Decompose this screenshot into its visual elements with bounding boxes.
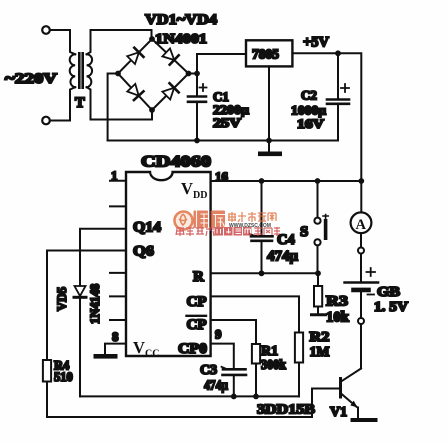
wire bottom rail2 to V1 base <box>47 389 340 418</box>
transistor V1 <box>339 369 361 419</box>
ground V1 emitter <box>351 418 378 422</box>
svg-text:V: V <box>181 179 193 198</box>
wire ground rail <box>108 140 338 142</box>
resistor R4 <box>43 360 51 417</box>
label VCC <box>133 338 159 360</box>
svg-text:474μ: 474μ <box>267 249 298 265</box>
capacitor C4 <box>250 181 273 273</box>
pin 5 stub <box>110 272 126 274</box>
diode VD1 top-left <box>127 48 143 64</box>
switch S <box>314 181 328 273</box>
ammeter A <box>351 212 372 233</box>
wire bridge right node to C1 tap up to 7805 <box>189 54 247 74</box>
svg-text:1N4148: 1N4148 <box>88 284 102 324</box>
node bridge left <box>115 71 121 77</box>
wire bottom rail1 <box>80 395 299 397</box>
wire terminal to battery <box>360 254 362 282</box>
node bridge right <box>186 71 192 77</box>
svg-text:C1: C1 <box>213 89 229 104</box>
svg-text:25V: 25V <box>213 116 241 130</box>
node C1 tap <box>194 71 200 77</box>
wire CP0 to C3 <box>211 344 234 369</box>
svg-text:1N4001: 1N4001 <box>155 31 207 46</box>
svg-text:1M: 1M <box>310 345 330 360</box>
ground pin8 <box>94 354 118 359</box>
svg-text:C3: C3 <box>200 363 217 378</box>
node C4 top <box>259 178 265 184</box>
transformer T core <box>78 52 84 89</box>
svg-text:9: 9 <box>215 327 222 342</box>
svg-text:R2: R2 <box>310 330 330 345</box>
transformer T secondary winding <box>87 54 93 87</box>
svg-text:V1: V1 <box>330 405 347 420</box>
svg-text:510: 510 <box>54 370 73 384</box>
diode VD3 bottom-left <box>127 84 143 100</box>
svg-text:A: A <box>356 217 367 233</box>
wire Q6 to R4 <box>47 251 126 361</box>
svg-text:T: T <box>75 95 85 111</box>
svg-text:VD1~VD4: VD1~VD4 <box>145 12 217 28</box>
wire 7805 out to +5V <box>292 53 361 181</box>
node R3 top <box>315 270 321 276</box>
ground R3 <box>312 313 326 316</box>
regulator U 7805 box <box>246 40 292 66</box>
svg-text:10k: 10k <box>326 310 350 326</box>
wire 7805 gnd pin <box>268 66 270 140</box>
wire <box>50 30 75 54</box>
svg-text:VD5: VD5 <box>55 287 69 311</box>
resistor R1 <box>252 344 260 396</box>
watermark weiku logo <box>175 211 281 237</box>
label C2 plus <box>341 84 349 92</box>
svg-text:1. 5V: 1. 5V <box>374 299 408 314</box>
svg-text:1000μ: 1000μ <box>291 104 326 118</box>
terminal meter bottom <box>358 248 364 254</box>
svg-text:C2: C2 <box>301 88 317 103</box>
capacitor C2 <box>327 53 349 140</box>
node bridge top <box>149 36 155 42</box>
svg-text:16V: 16V <box>297 117 324 131</box>
wire Q14 to VD5 <box>80 229 126 286</box>
node C1 ground <box>194 138 200 144</box>
wire battery to V1 collector <box>360 324 362 369</box>
resistor R2 <box>295 333 303 397</box>
svg-text:Q6: Q6 <box>133 244 154 260</box>
wire reset rail <box>211 272 318 274</box>
wire secondary top to bridge <box>87 30 152 54</box>
resistor R3 <box>314 273 322 313</box>
svg-text:DD: DD <box>193 190 207 201</box>
svg-text:1: 1 <box>111 168 118 183</box>
label VDD <box>181 179 207 201</box>
svg-text:S: S <box>300 224 308 240</box>
pin 6 stub <box>110 295 126 297</box>
watermark weiku chars <box>194 211 226 229</box>
node S top <box>315 178 321 184</box>
wire CP to R2 <box>211 296 299 332</box>
svg-text:+5V: +5V <box>303 35 330 51</box>
svg-text:8: 8 <box>112 329 119 344</box>
node C4 bottom <box>259 270 265 276</box>
svg-text:GB: GB <box>377 284 400 299</box>
wire secondary bottom AC rail <box>87 87 152 119</box>
watermark red slogan row <box>176 227 280 236</box>
capacitor C1 <box>188 74 206 141</box>
label C1 plus <box>200 84 207 91</box>
svg-text:2200μ: 2200μ <box>213 103 249 117</box>
wire pin8 to ground <box>105 344 126 354</box>
svg-text:Q14: Q14 <box>133 220 161 236</box>
node +5V <box>335 50 341 56</box>
diode VD4 bottom-right <box>162 83 178 99</box>
transformer T primary winding <box>70 54 76 87</box>
wire <box>50 87 75 120</box>
svg-text:CP0: CP0 <box>178 341 207 357</box>
node bridge bottom <box>149 107 155 113</box>
capacitor C3 <box>222 367 247 397</box>
node R1 bottom <box>253 394 259 400</box>
svg-text:CD4060: CD4060 <box>141 154 211 171</box>
svg-text:R: R <box>193 269 204 285</box>
watermark small orange chars <box>228 212 276 222</box>
pin 1 stub <box>110 180 126 182</box>
terminal battery bottom <box>358 318 364 324</box>
terminal AC top <box>42 26 50 34</box>
svg-text:7805: 7805 <box>252 47 279 62</box>
svg-text:3DD15B: 3DD15B <box>257 403 315 418</box>
svg-text:~220V: ~220V <box>5 71 58 87</box>
wire bridge left node down to ground rail <box>108 74 118 141</box>
wire +5V down to ammeter <box>360 181 362 212</box>
svg-text:300k: 300k <box>261 358 286 373</box>
wire ammeter to terminal <box>360 233 362 247</box>
battery GB <box>345 283 378 319</box>
terminal AC bottom <box>42 117 50 125</box>
label CPbar pin <box>187 316 207 333</box>
wire VDD rail pin16 <box>211 180 362 182</box>
ground power <box>258 141 282 157</box>
diode VD5 <box>74 286 86 396</box>
svg-text:R3: R3 <box>326 294 348 310</box>
svg-text:R1: R1 <box>261 344 278 359</box>
node +5V corner <box>358 178 364 184</box>
pin 7 stub <box>110 319 126 321</box>
label GB minus <box>368 294 375 296</box>
svg-text:CC: CC <box>145 349 159 360</box>
svg-text:V: V <box>133 338 145 357</box>
diode VD2 top-right <box>162 48 178 64</box>
svg-text:CP: CP <box>187 294 207 310</box>
svg-text:CP: CP <box>187 317 207 333</box>
svg-text:474μ: 474μ <box>204 379 228 394</box>
wire CPbar to R1 <box>211 320 256 344</box>
node C3 bottom <box>231 394 237 400</box>
bridge rectifier VD1~VD4 diamond wires <box>118 39 189 110</box>
pin 2 stub <box>110 205 126 207</box>
node 7805 gnd <box>266 138 272 144</box>
label GB plus <box>367 268 376 276</box>
IC U1 CD4060 body <box>126 172 211 356</box>
